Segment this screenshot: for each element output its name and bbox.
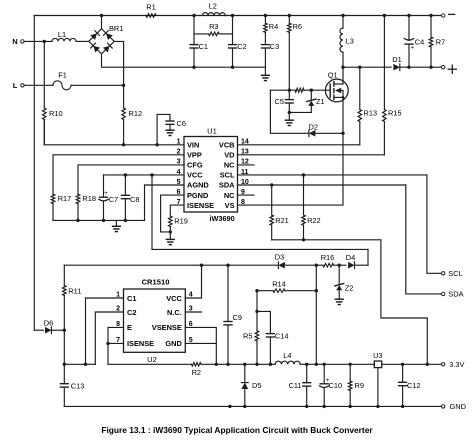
svg-text:R4: R4 [269, 22, 278, 31]
svg-text:D6: D6 [44, 319, 53, 328]
svg-text:SDA: SDA [448, 290, 463, 299]
svg-text:D2: D2 [309, 122, 318, 131]
svg-text:D1: D1 [392, 55, 401, 64]
svg-text:R5: R5 [243, 332, 252, 341]
svg-text:C13: C13 [71, 382, 85, 391]
svg-text:N: N [12, 37, 17, 46]
svg-text:R15: R15 [388, 109, 402, 118]
svg-text:NC: NC [224, 161, 235, 170]
svg-text:C3: C3 [270, 42, 279, 51]
svg-text:BR1: BR1 [109, 24, 123, 33]
svg-text:R16: R16 [321, 253, 335, 262]
svg-text:C6: C6 [177, 119, 186, 128]
svg-text:D4: D4 [346, 253, 355, 262]
svg-text:C7: C7 [109, 195, 118, 204]
svg-text:R10: R10 [49, 109, 63, 118]
svg-text:Z1: Z1 [316, 97, 325, 106]
svg-text:VPP: VPP [187, 151, 202, 160]
svg-text:C11: C11 [289, 381, 302, 390]
svg-text:VS: VS [225, 201, 235, 210]
svg-text:SCL: SCL [220, 171, 235, 180]
svg-text:VCC: VCC [166, 294, 182, 303]
svg-text:VD: VD [224, 151, 235, 160]
svg-text:R19: R19 [174, 216, 188, 225]
svg-text:N.C.: N.C. [167, 308, 182, 317]
svg-text:VCB: VCB [219, 141, 235, 150]
svg-text:+: + [411, 46, 415, 52]
svg-text:PGND: PGND [187, 191, 209, 200]
svg-text:R9: R9 [355, 381, 364, 390]
svg-text:R6: R6 [293, 22, 302, 31]
svg-text:VCC: VCC [187, 171, 203, 180]
svg-text:SCL: SCL [448, 269, 462, 278]
svg-text:GND: GND [450, 402, 466, 411]
svg-text:C2: C2 [127, 308, 136, 317]
svg-text:R17: R17 [58, 194, 72, 203]
svg-text:CR1510: CR1510 [142, 278, 170, 287]
svg-text:C1: C1 [127, 294, 136, 303]
svg-text:ISENSE: ISENSE [187, 201, 214, 210]
svg-text:NC: NC [224, 191, 235, 200]
svg-text:+: + [104, 191, 108, 197]
svg-text:C12: C12 [407, 381, 421, 390]
svg-text:R18: R18 [82, 194, 96, 203]
svg-text:Z2: Z2 [345, 284, 354, 293]
svg-text:GND: GND [165, 339, 182, 348]
svg-text:R14: R14 [272, 279, 286, 288]
svg-text:C8: C8 [130, 195, 139, 204]
svg-text:Q1: Q1 [328, 71, 338, 80]
svg-text:R2: R2 [192, 368, 201, 377]
svg-text:D3: D3 [275, 253, 284, 262]
svg-text:C1: C1 [199, 42, 208, 51]
svg-text:L3: L3 [346, 37, 354, 46]
svg-text:R3: R3 [209, 22, 218, 31]
svg-text:L1: L1 [58, 30, 66, 39]
svg-text:C5: C5 [275, 97, 284, 106]
svg-text:C9: C9 [233, 313, 242, 322]
svg-text:R22: R22 [307, 216, 321, 225]
svg-text:U1: U1 [207, 126, 217, 135]
svg-text:R1: R1 [146, 2, 155, 11]
svg-text:iW3690: iW3690 [210, 214, 235, 223]
svg-text:VIN: VIN [187, 141, 199, 150]
svg-text:ISENSE: ISENSE [127, 339, 154, 348]
svg-text:R13: R13 [364, 109, 378, 118]
svg-text:R21: R21 [275, 216, 289, 225]
svg-text:R11: R11 [68, 286, 81, 295]
svg-text:L: L [13, 81, 18, 90]
svg-text:R7: R7 [436, 38, 445, 47]
svg-text:E: E [127, 323, 132, 332]
svg-text:R12: R12 [129, 109, 143, 118]
svg-text:L2: L2 [209, 2, 217, 11]
svg-text:C10: C10 [329, 381, 343, 390]
svg-text:U3: U3 [373, 351, 382, 360]
svg-text:Figure 13.1 : iW3690 Typical A: Figure 13.1 : iW3690 Typical Application… [101, 425, 373, 435]
svg-text:D5: D5 [252, 381, 261, 390]
svg-text:3.3V: 3.3V [449, 360, 464, 369]
svg-text:F1: F1 [58, 70, 67, 79]
svg-text:U2: U2 [147, 355, 157, 364]
svg-text:C14: C14 [275, 332, 289, 341]
svg-text:C4: C4 [415, 38, 424, 47]
svg-text:SDA: SDA [219, 181, 235, 190]
svg-text:C2: C2 [237, 42, 246, 51]
svg-text:L4: L4 [283, 351, 291, 360]
svg-text:AGND: AGND [187, 181, 209, 190]
svg-text:VSENSE: VSENSE [152, 323, 182, 332]
svg-text:CFG: CFG [187, 161, 203, 170]
